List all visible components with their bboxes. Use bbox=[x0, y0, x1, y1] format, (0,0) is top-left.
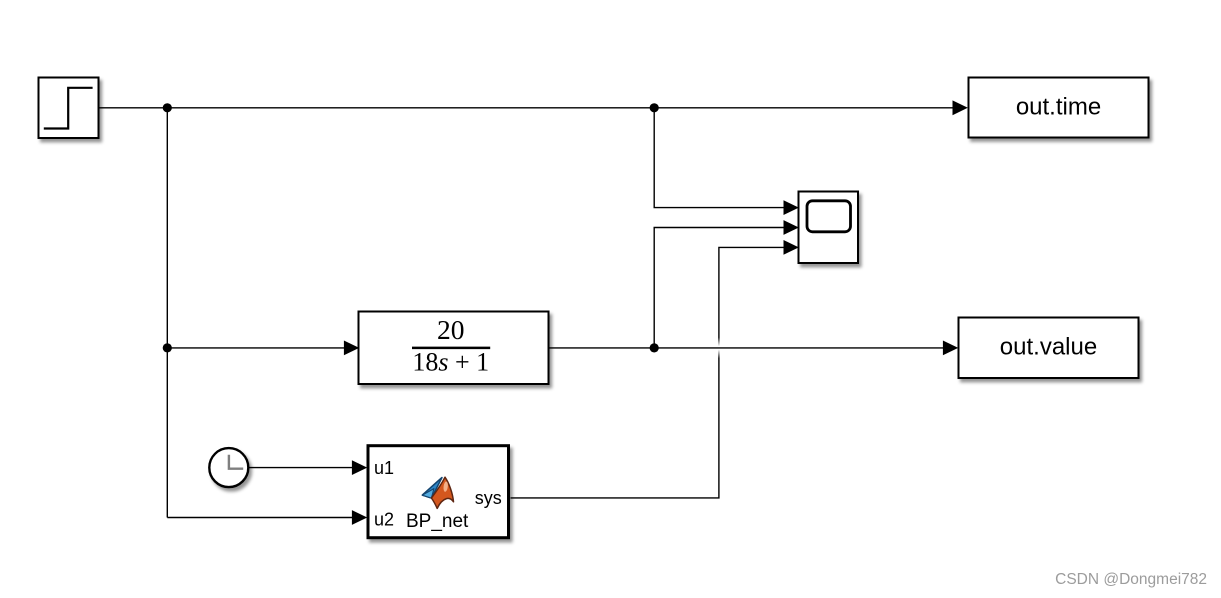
wire: u2 input from vertical branch bbox=[167, 517, 352, 519]
svg-text:20: 20 bbox=[437, 314, 465, 345]
svg-text:CSDN @Dongmei782: CSDN @Dongmei782 bbox=[1055, 571, 1207, 588]
wire: scope input 1 from top line bbox=[654, 108, 784, 208]
svg-text:sys: sys bbox=[475, 488, 502, 508]
svg-text:BP_net: BP_net bbox=[406, 511, 469, 532]
clock hands bbox=[229, 455, 243, 469]
wire: transfer-fn output to out.value bbox=[549, 347, 944, 349]
svg-text:u1: u1 bbox=[374, 458, 394, 478]
arrowhead scope in2 bbox=[784, 220, 799, 235]
node: junction dot at transfer-fn input branch bbox=[163, 343, 172, 352]
block: Step source bbox=[39, 78, 99, 139]
block: Scope bbox=[799, 192, 859, 264]
svg-text:18s + 1: 18s + 1 bbox=[412, 348, 489, 377]
fraction bar bbox=[412, 347, 490, 350]
arrowhead into out.value bbox=[943, 341, 958, 356]
node: junction dot on step line at branch x=167 bbox=[163, 103, 172, 112]
block: Clock bbox=[209, 448, 248, 487]
wire: clock output to u1 bbox=[248, 467, 352, 469]
arrowhead scope in1 bbox=[784, 200, 799, 215]
wire: BP_net sys output up to scope input 3 bbox=[511, 247, 784, 498]
block: out.time (To Workspace) bbox=[969, 78, 1149, 138]
wire: scope input 2 from transfer-fn output bbox=[654, 228, 784, 348]
block: out.value (To Workspace) bbox=[959, 318, 1139, 379]
svg-text:out.value: out.value bbox=[1000, 334, 1097, 361]
wire: step output to out.time bbox=[99, 107, 953, 109]
node: junction dot on transfer-fn output bbox=[650, 343, 659, 352]
block: BP_net MATLAB Function bbox=[368, 446, 509, 538]
arrowhead scope in3 bbox=[784, 240, 799, 255]
arrowhead into u1 bbox=[352, 460, 367, 475]
node: junction dot on step line at x=654 bbox=[650, 103, 659, 112]
MATLAB membrane logo bbox=[422, 477, 453, 508]
scope screen bbox=[807, 201, 851, 232]
block: transfer function 20/(18s+1) bbox=[359, 312, 549, 385]
wire: vertical branch from step line down to u2 row bbox=[166, 108, 168, 518]
arrowhead into out.time bbox=[953, 100, 968, 115]
arrowhead into transfer fn bbox=[344, 341, 359, 356]
arrowhead into u2 bbox=[352, 510, 367, 525]
svg-text:u2: u2 bbox=[374, 509, 394, 529]
step waveform glyph bbox=[44, 88, 93, 129]
wire: branch to transfer-fn input bbox=[167, 347, 344, 349]
svg-text:out.time: out.time bbox=[1016, 93, 1101, 120]
